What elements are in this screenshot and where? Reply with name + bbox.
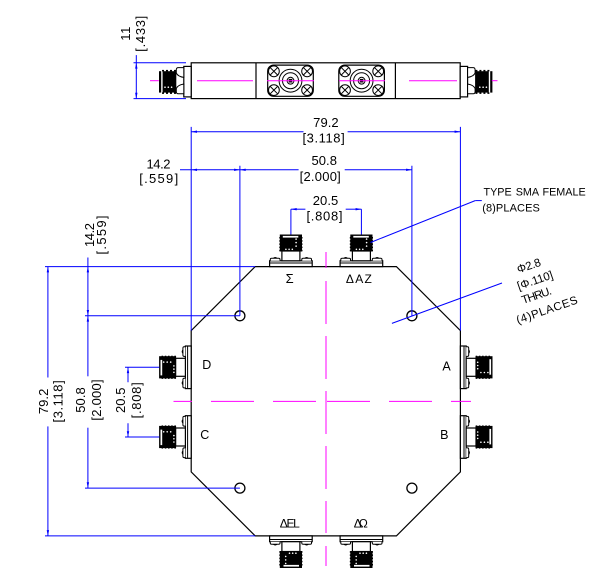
svg-text:Σ: Σ [286,271,294,286]
arrow 20.5 vertical top [127,367,129,373]
arrow 14.2 horizontal left [191,169,197,171]
mounting hole top-left [235,311,245,321]
extension line right hole column (vertical) [411,166,413,316]
arrow 79.2 vertical top [47,267,49,273]
mounting hole top-right [407,311,417,321]
arrow 20.5 horizontal right [356,208,362,210]
connector port A (right upper) [460,346,492,389]
side view body parting line right [394,63,396,99]
side view body parting line left [255,63,257,99]
svg-text:[.559]: [.559] [94,216,109,255]
svg-text:20.5: 20.5 [113,388,128,414]
svg-text:[.808]: [.808] [306,209,342,224]
extension line upper hole row (horizontal) [85,315,240,317]
svg-text:A: A [442,360,451,374]
svg-text:D: D [202,358,211,372]
right end SMA connector (side view, mirrored) [460,66,492,97]
svg-text:50.8: 50.8 [311,153,337,168]
svg-text:[.433]: [.433] [133,16,148,52]
horizontal centerline (magenta) [174,400,472,402]
dimension text 20.5 vertical [113,388,128,414]
dimension text 50.8 vertical [73,387,88,413]
dimension 11 arrow top [135,63,137,69]
vertical centerline (magenta) [325,252,327,566]
dimension line 79.2 vertical [47,267,49,378]
connector port delta-Omega (bottom) [340,536,383,568]
dimension line 79.2 horizontal [191,131,303,133]
arrow 50.8 vertical bottom [87,482,89,488]
dimension line 20.5 vertical [127,367,129,382]
connector port delta-EL (bottom) [270,536,313,568]
svg-text:[2.000]: [2.000] [300,169,341,184]
dimension text 14.2 vertical [82,223,97,247]
svg-text:14.2: 14.2 [147,157,171,172]
arrow 20.5 horizontal left [291,208,297,210]
connector port Sigma (top) [270,235,313,267]
dimension 11 arrow bottom [135,93,137,99]
svg-text:50.8: 50.8 [73,387,88,413]
octagon body outline [191,267,460,536]
arrow 50.8 vertical top [87,316,89,322]
arrow 79.2 horizontal left [191,131,197,133]
extension line right edge of body (vertical) [459,127,461,331]
mounting hole bottom-left [235,483,245,493]
arrow 79.2 vertical bottom [47,530,49,536]
svg-text:[.808]: [.808] [129,382,144,418]
extension line port C (horizontal) [125,436,159,438]
port Sigma flange face (side view) [268,65,314,96]
dimension line 14.2 + 50.8 vertical [87,258,89,377]
port delta-AZ flange face (side view) [339,65,385,96]
dimension text 11 [.433] [118,16,148,52]
dimension line 20.5 horizontal [291,208,306,210]
extension line left edge of body (vertical) [190,127,192,331]
svg-text:ΔΩ: ΔΩ [354,517,368,531]
svg-text:79.2: 79.2 [313,115,339,130]
connector port B (right lower) [460,416,492,459]
svg-text:[3.118]: [3.118] [51,380,66,422]
leader to hole diameter note [392,283,502,323]
svg-text:B: B [440,428,448,442]
extension line top edge of body (horizontal) [45,266,255,268]
dimension 11 [.433] extension and dimension lines [134,55,187,99]
note hole diameter 2.8 [.110] THRU (4)PLACES [516,257,543,276]
arrow 14.2 horizontal right [234,169,240,171]
svg-text:[3.118]: [3.118] [303,131,345,146]
extension line left hole column (vertical) [239,166,241,316]
arrow 14.2 vertical bottom [87,310,89,316]
svg-text:ΔEL: ΔEL [280,517,300,531]
svg-text:79.2: 79.2 [36,389,51,415]
arrow 20.5 vertical bottom [127,431,129,437]
svg-text:11: 11 [118,27,133,41]
svg-text:TYPE SMA FEMALE: TYPE SMA FEMALE [484,187,586,199]
svg-text:C: C [200,428,209,442]
svg-text:20.5: 20.5 [313,193,339,208]
extension line port delta-AZ (vertical) [360,209,362,234]
extension line bottom edge of body (horizontal) [45,535,255,537]
arrow 50.8 horizontal right [406,169,412,171]
svg-text:[2.000]: [2.000] [89,379,104,420]
arrow 50.8 horizontal left [240,169,246,171]
dimension text 79.2 vertical [36,389,51,415]
connector port delta-AZ (top) [340,235,383,267]
connector port C (left lower) [160,416,192,459]
side view body outline [191,63,460,99]
side view centerline (magenta) [150,80,498,82]
leader to TYPE SMA FEMALE note [371,201,476,243]
dimension line 14.2 + 50.8 horizontal [180,169,299,171]
extension line port D (horizontal) [125,366,159,368]
extension line port Sigma (vertical) [290,209,292,234]
arrow 79.2 horizontal right [455,131,461,133]
extension line lower hole row (horizontal) [85,487,240,489]
connector port D (left upper) [160,346,192,389]
mounting hole bottom-right [407,483,417,493]
svg-text:ΔAZ: ΔAZ [346,272,372,286]
svg-text:(8)PLACES: (8)PLACES [482,203,540,215]
left end SMA connector (side view) [159,66,191,97]
arrow 14.2 vertical top [87,267,89,273]
svg-text:[.559]: [.559] [139,171,178,186]
